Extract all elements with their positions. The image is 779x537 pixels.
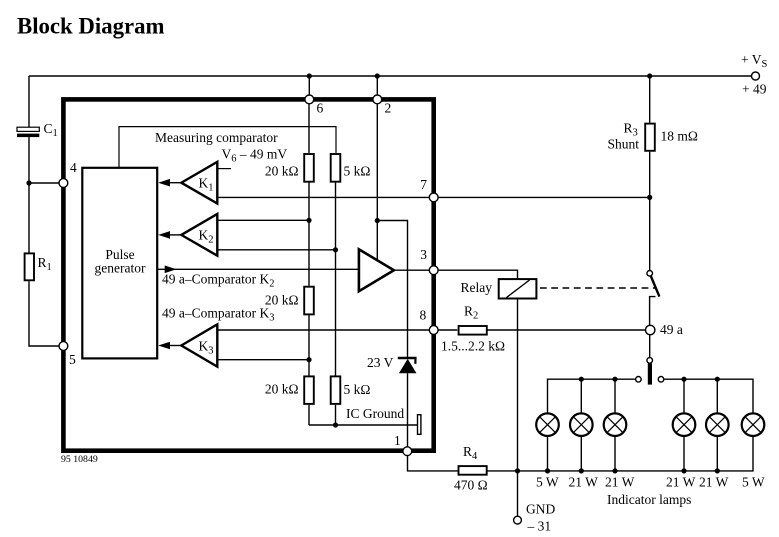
relay coil (499, 279, 537, 298)
wire pin7 to node (438, 196, 650, 198)
svg-text:4: 4 (70, 160, 77, 175)
wire rail to pin6 (308, 76, 310, 95)
svg-text:2: 2 (385, 101, 392, 116)
wire K2 input upper (217, 219, 309, 221)
wire column A bottom (308, 405, 310, 425)
node dot bus gnd (515, 468, 520, 473)
node dot bus lamp4b (681, 468, 686, 473)
IC ground terminal bar (418, 415, 421, 435)
terminal +Vs (752, 72, 760, 80)
wire column B mid (335, 182, 337, 375)
node dot left-pin4 (26, 180, 31, 185)
svg-text:IC Ground: IC Ground (346, 406, 404, 421)
svg-text:21 W: 21 W (699, 475, 729, 490)
node dot pin7 branch (647, 195, 652, 200)
wire K1 input to pin7 (217, 196, 429, 198)
node dot bus lamp3b (612, 468, 617, 473)
resistor 5k upper (331, 154, 341, 182)
resistor 5k lower (331, 376, 341, 404)
wire R2 to 49a terminal (487, 329, 645, 331)
node dot K2 upper colA (306, 218, 311, 223)
svg-text:Relay: Relay (461, 280, 493, 295)
wire zener to pin1 (407, 373, 409, 446)
node dot K2 lower colB (333, 247, 338, 252)
wire lamp2 stem top (580, 379, 582, 413)
svg-text:3: 3 (420, 247, 427, 262)
lamp 6 (742, 413, 765, 436)
wire node down to switch (649, 197, 651, 270)
node dot bus lamp5 (715, 377, 720, 382)
wire K2 input lower (217, 249, 335, 251)
svg-text:Indicator lamps: Indicator lamps (607, 492, 691, 507)
wire jog to zener column (377, 221, 407, 358)
svg-text:5: 5 (69, 352, 76, 367)
lamp 4 (673, 413, 696, 436)
pin 8 (429, 326, 438, 335)
wire lamp3 stem top (614, 379, 616, 413)
svg-text:23 V: 23 V (367, 355, 394, 370)
terminal GND (514, 516, 522, 524)
resistor R4 (459, 466, 487, 475)
switch pivot (647, 271, 653, 277)
wire lamp1 stem bottom (547, 436, 549, 471)
svg-text:5 kΩ: 5 kΩ (344, 164, 371, 179)
resistor R1 (25, 253, 34, 280)
svg-text:21 W: 21 W (605, 475, 635, 490)
svg-text:8: 8 (420, 308, 427, 323)
node dot rail-pin6 (307, 73, 312, 78)
lamp 2 (570, 413, 593, 436)
svg-text:generator: generator (95, 261, 146, 276)
IC box border (63, 99, 433, 450)
node dot K3 lower colA (306, 357, 311, 362)
wire K3 input upper to pin8 (217, 329, 429, 331)
pin 2 (373, 95, 382, 104)
node dot bus lamp2b (579, 468, 584, 473)
wire column A mid1 (308, 182, 310, 286)
wire column A pin6 down (308, 104, 310, 153)
pin 4 (59, 179, 68, 188)
node dot rail-pin2 (375, 73, 380, 78)
svg-text:49 a: 49 a (660, 322, 683, 337)
wire gnd column to terminal (517, 471, 519, 516)
wire lamp3 stem bottom (614, 436, 616, 471)
wire pin2 down (376, 104, 378, 261)
wire K3 input lower (217, 359, 309, 361)
wire lamp4 stem top (683, 379, 685, 413)
resistor 20k lower (304, 376, 314, 404)
node dot bus lamp2 (579, 377, 584, 382)
op-amp K2 (181, 214, 217, 256)
op-amp K3 (181, 324, 217, 366)
svg-text:1: 1 (394, 433, 401, 448)
svg-text:20 kΩ: 20 kΩ (265, 164, 299, 179)
op-amp K1 (181, 162, 217, 204)
op-amp comparator (359, 249, 394, 291)
wire K1 ref stub (217, 168, 231, 170)
wire pulse output to comparator with arrow (157, 268, 359, 270)
wire rail to pin2 (376, 76, 378, 95)
svg-text:5 kΩ: 5 kΩ (344, 382, 371, 397)
svg-text:5 W: 5 W (536, 475, 559, 490)
zener diode 23V (398, 358, 417, 374)
svg-text:21 W: 21 W (666, 475, 696, 490)
svg-text:95 10849: 95 10849 (61, 454, 98, 465)
resistor R2 (459, 326, 487, 335)
wire measuring-comparator bracket (119, 127, 336, 168)
pin 5 (59, 342, 68, 351)
pin 6 (305, 95, 314, 104)
node dot bus lamp5b (715, 468, 720, 473)
switch blade (651, 276, 660, 297)
wire column A mid2 (308, 315, 310, 375)
svg-text:470 Ω: 470 Ω (454, 478, 488, 493)
wire IC ground rail (309, 424, 417, 426)
svg-text:1.5...2.2 kΩ: 1.5...2.2 kΩ (441, 339, 505, 354)
wire K3 output with arrow (168, 345, 181, 347)
lamp 1 (536, 413, 559, 436)
wire lamp bus left (548, 379, 635, 413)
svg-text:GND: GND (526, 502, 555, 517)
wire R1 to pin5 (29, 281, 59, 346)
wire left branch down to C1 (28, 76, 30, 128)
resistor 20k middle (304, 287, 314, 315)
pulse generator box (82, 168, 157, 359)
svg-text:20 kΩ: 20 kΩ (265, 293, 299, 308)
wire lamp5 stem bottom (716, 436, 718, 471)
svg-text:7: 7 (420, 177, 427, 192)
wire lamp5 stem top (716, 379, 718, 413)
wire top supply rail (29, 75, 752, 77)
wire K2 output with arrow (168, 234, 181, 236)
lamp 5 (706, 413, 729, 436)
resistor R3 shunt (645, 124, 655, 151)
wire lamp bus right (664, 379, 753, 413)
svg-text:20 kΩ: 20 kΩ (265, 382, 299, 397)
wire column B bottom (335, 405, 337, 425)
wire node down to R1 (28, 183, 30, 253)
wire relay down to gnd column (517, 299, 519, 471)
node dot ground colB (333, 422, 338, 427)
svg-text:Measuring comparator: Measuring comparator (155, 130, 278, 145)
svg-text:+ 49: + 49 (742, 82, 767, 97)
wire 49a down (649, 335, 651, 358)
pin 7 (429, 193, 438, 202)
wire switch contact to 49a (650, 297, 656, 325)
wire C1 to node (28, 137, 30, 183)
wire pin8 to R2 (438, 329, 457, 331)
capacitor C1 (17, 127, 39, 137)
node dot bus lamp3 (612, 377, 617, 382)
svg-text:Block Diagram: Block Diagram (17, 14, 165, 39)
hazard switch left contact (636, 377, 642, 383)
dashed linkage relay to switch (540, 287, 656, 289)
wire pin1 to R4 (408, 455, 458, 471)
node dot pin2 jog (375, 218, 380, 223)
wire lamp4 stem bottom (683, 436, 685, 471)
wire node to pin4 (29, 182, 59, 184)
resistor 20k upper (304, 154, 314, 182)
wire comparator output to pin3 (394, 269, 430, 271)
svg-text:21 W: 21 W (569, 475, 599, 490)
hazard switch right contact (658, 377, 664, 383)
svg-text:18 mΩ: 18 mΩ (661, 129, 698, 144)
node dot rail-R3 (647, 73, 652, 78)
node dot bus lamp4 (681, 377, 686, 382)
wire R3 to node (649, 152, 651, 198)
wire K1 output with arrow (168, 182, 181, 184)
wire bottom bus (487, 436, 753, 471)
hazard switch top contact (647, 358, 653, 364)
lamp 3 (604, 413, 627, 436)
svg-text:6: 6 (317, 101, 324, 116)
wire pin3 to relay (438, 270, 518, 279)
wire rail to R3 (649, 76, 651, 123)
pin 3 (429, 266, 438, 275)
svg-text:– 31: – 31 (527, 519, 552, 534)
node dot bus lamp1b (545, 468, 550, 473)
svg-text:5 W: 5 W (742, 475, 765, 490)
wire lamp2 stem bottom (580, 436, 582, 471)
terminal 49a (646, 325, 655, 334)
hazard switch bar (648, 363, 652, 384)
svg-text:Shunt: Shunt (608, 137, 640, 152)
pin 1 (403, 447, 412, 456)
